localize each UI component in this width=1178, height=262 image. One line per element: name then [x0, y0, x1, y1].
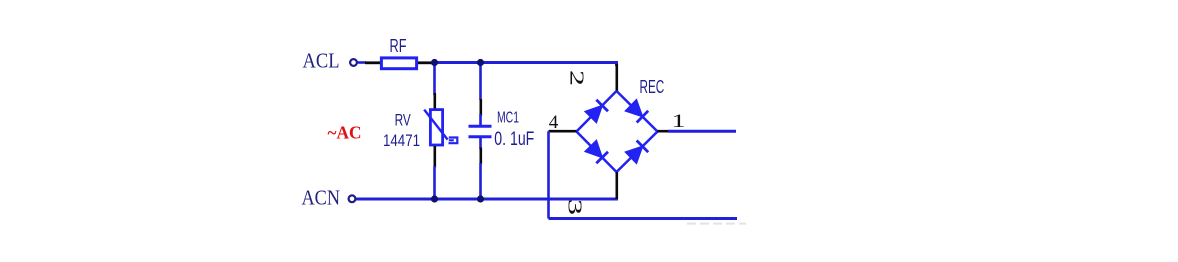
pin 2 of REC (black) — [615, 64, 618, 91]
varistor RV tail symbol — [449, 138, 458, 144]
varistor RV body — [430, 110, 442, 145]
diode lower-left (4 to 3) — [586, 142, 608, 164]
pin RV top (black) — [433, 93, 436, 109]
svg-text:14471: 14471 — [383, 131, 420, 150]
wire pin1 right — [668, 130, 736, 133]
pin RF right (black) — [418, 61, 433, 64]
diode upper-left (4 to 2) — [586, 100, 608, 122]
wire top bus — [435, 61, 619, 64]
wire MC1 lower — [479, 163, 482, 199]
svg-text:4: 4 — [549, 112, 559, 133]
svg-text:REC: REC — [640, 77, 665, 97]
capacitor MC1 top plate — [469, 125, 492, 128]
wire MC1 upper — [479, 63, 482, 101]
pin MC1 bottom (black) — [479, 148, 482, 165]
terminal ACN — [349, 195, 356, 202]
terminal ACL — [350, 59, 357, 66]
bridge REC outline — [577, 91, 658, 172]
wire top bus corner down — [615, 63, 618, 67]
wire bottom-left bus — [549, 217, 738, 220]
wire ACL stub — [358, 61, 366, 64]
diode upper-right (2 to 1) — [627, 101, 649, 123]
svg-text:ACL: ACL — [303, 49, 340, 73]
svg-text:MC1: MC1 — [497, 109, 519, 126]
wire ACN bus — [356, 198, 618, 201]
svg-text:ACN: ACN — [302, 186, 341, 210]
faint watermark smudge — [687, 223, 746, 225]
pin RF left (black) — [365, 61, 380, 64]
pin RV bottom (black) — [433, 146, 436, 168]
junction dot B (top of MC1) — [477, 59, 484, 66]
svg-text:RF: RF — [390, 36, 407, 56]
wire MC1 below plate — [479, 138, 482, 149]
svg-text:1: 1 — [672, 111, 686, 132]
svg-text:~AC: ~AC — [328, 123, 362, 143]
junction dot D (bottom of MC1) — [477, 195, 484, 202]
svg-text:RV: RV — [395, 110, 412, 129]
capacitor MC1 bottom plate — [469, 135, 492, 138]
wire MC1 to plate — [479, 114, 482, 126]
varistor RV diagonal — [424, 110, 447, 140]
pin 1 of REC (black) — [658, 130, 670, 133]
svg-text:0. 1uF: 0. 1uF — [494, 129, 534, 150]
wire RV lower — [433, 166, 436, 199]
diode lower-right (3 to 1) — [627, 141, 649, 163]
wire RV upper — [433, 63, 436, 96]
wire pin4 down — [547, 131, 550, 218]
resistor RF — [381, 58, 416, 69]
pin 4 of REC (black) — [549, 130, 577, 133]
svg-text:3: 3 — [564, 199, 586, 215]
junction dot C (bottom of RV) — [431, 195, 438, 202]
pin MC1 top (black) — [479, 99, 482, 116]
pin 3 of REC (black) — [615, 172, 618, 199]
svg-text:2: 2 — [566, 70, 588, 86]
junction dot A (top of RV) — [431, 59, 438, 66]
